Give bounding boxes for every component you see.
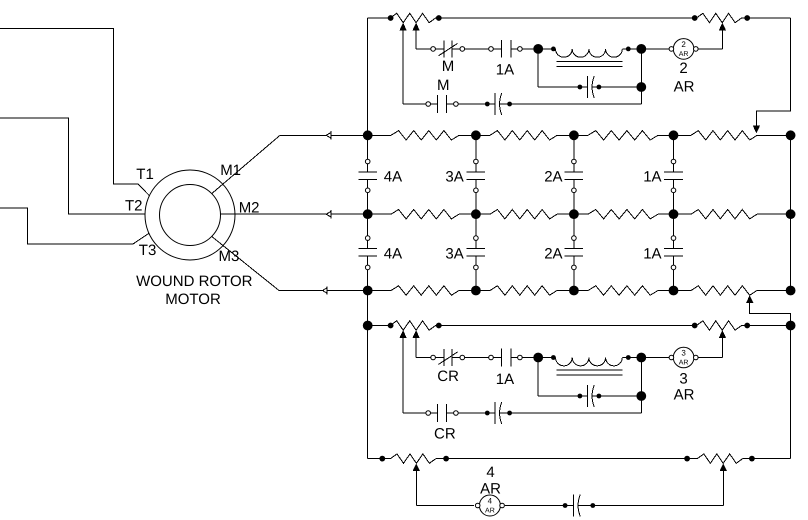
svg-text:T3: T3 [139, 242, 157, 259]
svg-text:AR: AR [485, 508, 495, 515]
svg-text:1A: 1A [496, 371, 514, 388]
svg-text:2A: 2A [544, 246, 562, 263]
svg-text:CR: CR [437, 368, 459, 385]
svg-text:T1: T1 [136, 166, 154, 183]
svg-text:MOTOR: MOTOR [165, 291, 221, 308]
svg-text:AR: AR [674, 79, 695, 96]
svg-text:3A: 3A [445, 169, 463, 186]
svg-text:1A: 1A [496, 62, 514, 79]
svg-text:AR: AR [679, 360, 689, 367]
svg-text:AR: AR [674, 387, 695, 404]
svg-text:AR: AR [480, 481, 501, 498]
svg-text:4: 4 [486, 464, 494, 481]
svg-text:1A: 1A [643, 169, 661, 186]
svg-text:M: M [442, 58, 455, 75]
svg-text:4: 4 [488, 497, 493, 506]
svg-text:AR: AR [679, 51, 689, 58]
svg-text:3: 3 [681, 349, 686, 358]
svg-text:4A: 4A [384, 246, 402, 263]
svg-text:4A: 4A [384, 169, 402, 186]
svg-text:2A: 2A [544, 169, 562, 186]
svg-text:M: M [437, 77, 450, 94]
svg-text:3A: 3A [445, 246, 463, 263]
svg-text:WOUND ROTOR: WOUND ROTOR [136, 273, 253, 290]
svg-text:CR: CR [434, 426, 456, 443]
svg-text:1A: 1A [643, 246, 661, 263]
svg-text:2: 2 [679, 60, 687, 77]
svg-text:M1: M1 [220, 162, 241, 179]
svg-text:2: 2 [681, 40, 686, 49]
svg-text:3: 3 [679, 370, 687, 387]
svg-text:T2: T2 [125, 198, 143, 215]
svg-text:M2: M2 [239, 200, 260, 217]
svg-text:M3: M3 [219, 248, 240, 265]
